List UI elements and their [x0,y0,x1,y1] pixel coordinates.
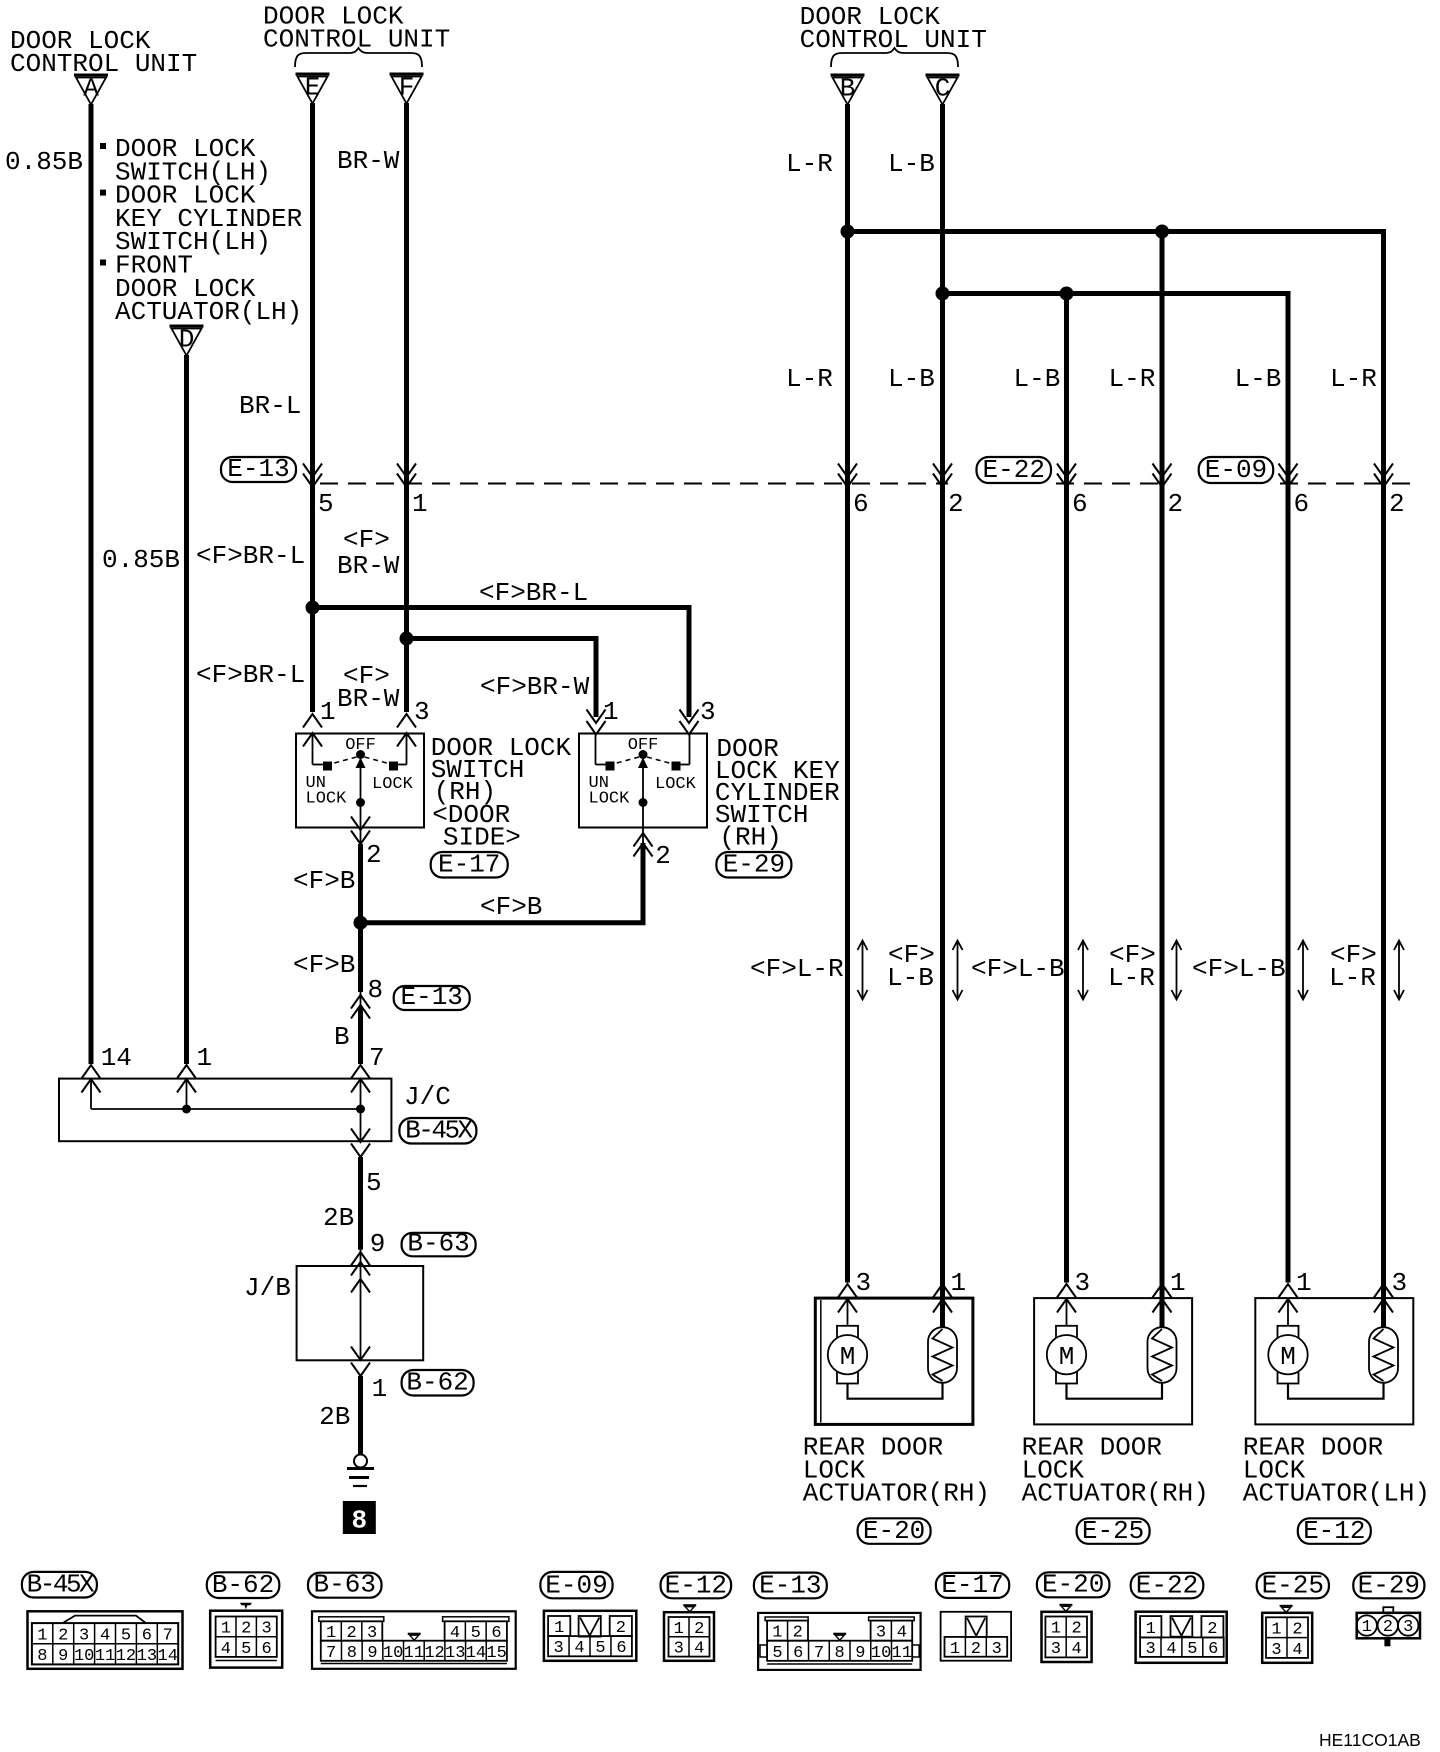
svg-text:1: 1 [1146,1620,1156,1639]
pin 14 arrow into J/C [82,1065,101,1093]
svg-text:5: 5 [595,1639,605,1658]
svg-text:E-17: E-17 [438,850,500,880]
bus wire from C to rear actuators (L-B) [940,291,1288,296]
svg-text:<F>BR-L: <F>BR-L [479,578,588,608]
svg-text:8: 8 [351,1506,367,1536]
rear door lock actuator name E-12 [1243,1432,1430,1508]
connector label B-45X [399,1116,476,1146]
connector pinout E-09 [544,1611,636,1661]
svg-text:B-45X: B-45X [405,1116,473,1146]
svg-text:6: 6 [1072,489,1088,519]
svg-text:E-12: E-12 [665,1570,727,1600]
svg-text:1: 1 [37,1626,47,1645]
svg-text:3: 3 [856,1268,872,1298]
updown arrow col4 [1172,941,1182,1000]
J/B entry arrow [351,1279,370,1293]
svg-text:A: A [83,74,99,104]
svg-text:13: 13 [445,1644,465,1663]
svg-text:ACTUATOR(LH): ACTUATOR(LH) [115,297,302,327]
wire drop to actuator RH2 pin3 (L-B) [1064,294,1069,1283]
svg-text:L-B: L-B [888,149,935,179]
svg-text:6: 6 [1294,489,1310,519]
connector crossing arrow at x=942.5 [933,464,952,488]
svg-text:BR-L: BR-L [239,391,301,421]
wire label <F> BR-W (second, two lines) [337,661,400,714]
svg-text:E-09: E-09 [1205,455,1267,485]
J/C internal bus [91,1079,361,1142]
connector B-63 crossing arrow, pin 9 [360,1250,362,1266]
svg-text:3: 3 [1392,1268,1408,1298]
svg-text:L-B: L-B [888,364,935,394]
svg-text:7: 7 [369,1043,385,1073]
wire drop to actuator RH2 pin1 (L-R) [1160,232,1165,1283]
svg-text:BR-W: BR-W [337,146,400,176]
svg-text:ACTUATOR(RH): ACTUATOR(RH) [1022,1479,1209,1509]
svg-text:1: 1 [1296,1268,1312,1298]
pin 1 arrow into J/C [177,1065,196,1093]
svg-text:3: 3 [1403,1618,1413,1637]
svg-text:10: 10 [74,1647,94,1666]
svg-text:B-63: B-63 [407,1228,469,1258]
svg-text:L-R: L-R [1329,963,1376,993]
pin 3 arrow into actuator E-25 [1057,1284,1076,1313]
J/C internal junction node (B) [356,1105,365,1114]
connector label E-09 (inline) [1199,455,1274,485]
svg-text:7: 7 [326,1644,336,1663]
updown arrow col2 [953,941,963,1000]
door lock switch (RH) name text [431,733,572,853]
svg-text:9: 9 [370,1229,386,1259]
updown arrow col3 [1078,941,1088,1000]
pin 2 arrow into key cylinder switch [634,833,653,857]
svg-text:3: 3 [414,697,430,727]
destination list: door lock switch LH / key cylinder switch LH / front door lock actuator LH [100,134,302,327]
actuator solenoid coil E-20 [928,1283,957,1383]
svg-text:1: 1 [1362,1618,1372,1637]
svg-text:<F>BR-W: <F>BR-W [480,672,590,702]
svg-text:F: F [399,73,415,103]
junction connector J/C box [59,1079,391,1142]
svg-text:L-R: L-R [1108,963,1155,993]
connector pinout E-22 [1136,1612,1227,1663]
wire D [184,355,189,1064]
connector label E-12 [1298,1516,1371,1546]
svg-text:2: 2 [1168,489,1184,519]
svg-text:E-25: E-25 [1082,1516,1144,1546]
svg-text:1: 1 [1271,1620,1281,1639]
actuator motor M E-12 [1268,1299,1307,1384]
connector label E-29 (strip) [1353,1570,1424,1600]
svg-text:6: 6 [142,1626,152,1645]
svg-text:3: 3 [674,1640,684,1659]
svg-text:E-13: E-13 [227,454,289,484]
connector crossing arrow at x=1288 [1279,464,1298,488]
connector pinout B-62 [210,1603,282,1668]
pin 2 arrow out of door lock switch [351,817,370,845]
junction node on <F>B wire [354,916,368,930]
svg-text:4: 4 [1166,1640,1176,1659]
connector crossing arrow at x=1162 [1153,464,1172,488]
svg-text:D: D [179,325,195,355]
svg-text:8: 8 [835,1644,845,1663]
junction node on wire C [936,287,950,301]
brace over B and C [831,48,958,67]
svg-text:8: 8 [368,975,384,1005]
svg-text:LOCK: LOCK [306,790,348,809]
connector label E-22 (inline) [977,455,1052,485]
actuator internal wire E-20 [848,1383,943,1399]
svg-text:3: 3 [1075,1268,1091,1298]
svg-text:<F>L-B: <F>L-B [1192,954,1286,984]
connector label E-17 (strip) [936,1570,1009,1600]
svg-text:L-R: L-R [1109,364,1156,394]
svg-text:E-29: E-29 [1358,1570,1420,1600]
branch wire <F>BR-L to key cylinder switch pin3 [313,608,690,718]
svg-text:8: 8 [37,1647,47,1666]
svg-text:J/B: J/B [244,1273,291,1303]
connector triangle D [170,325,204,356]
connector pinout E-20 [1042,1605,1092,1662]
svg-text:2: 2 [1383,1618,1393,1637]
svg-text:0.85B: 0.85B [102,545,180,575]
rear door lock actuator box E-12 [1255,1298,1413,1424]
connector label E-20 [858,1516,931,1546]
svg-text:<F>L-B: <F>L-B [971,954,1065,984]
svg-text:L-B: L-B [1235,364,1282,394]
branch wire <F>B to key cylinder switch pin2 [361,843,644,923]
svg-text:2: 2 [1389,489,1405,519]
connector triangle B [831,74,865,105]
svg-text:M: M [1059,1342,1075,1372]
svg-text:<F>BR-L: <F>BR-L [196,541,305,571]
svg-text:10: 10 [871,1644,891,1663]
svg-text:M: M [840,1342,856,1372]
svg-text:5: 5 [241,1640,251,1659]
connector crossing arrow at x=312.5 [303,464,322,488]
wire label <F> L-R (col6) [1329,940,1377,993]
svg-text:3: 3 [79,1626,89,1645]
harness boundary dashed line [320,483,1420,485]
connector pinout B-45X [28,1611,183,1669]
svg-text:1: 1 [320,697,336,727]
pin 1 arrow into actuator E-12 [1279,1284,1298,1313]
connector pinout E-13 [758,1613,921,1670]
wire label <F> L-R (col4) [1108,940,1156,993]
ground reference number 8 [343,1501,376,1536]
pin 5 arrow out of J/C [351,1129,370,1158]
ground symbol [347,1455,374,1487]
connector label E-09 (strip) [540,1570,612,1600]
svg-text:3: 3 [1051,1640,1061,1659]
connector label B-63 (strip) [308,1570,382,1600]
pin 3 arrow into door lock switch [397,714,416,747]
svg-text:11: 11 [892,1644,912,1663]
svg-text:2: 2 [948,489,964,519]
svg-text:L-B: L-B [1014,364,1061,394]
svg-text:<F>BR-L: <F>BR-L [196,660,305,690]
svg-text:12: 12 [116,1647,136,1666]
connector pinout E-29 [1357,1607,1421,1646]
junction node at x=1066.5 [1060,287,1074,301]
branch wire <F>BR-W to key cylinder switch pin1 [407,639,597,718]
junction block J/B box [297,1266,424,1360]
svg-text:6: 6 [793,1644,803,1663]
connector label E-17 [431,850,508,880]
junction node on wire B [841,225,855,239]
svg-text:3: 3 [992,1640,1002,1659]
svg-text:L-R: L-R [786,149,833,179]
svg-text:2: 2 [1071,1620,1081,1639]
actuator solenoid coil E-12 [1369,1283,1398,1383]
connector pinout E-12 [664,1605,714,1661]
svg-text:3: 3 [1271,1641,1281,1660]
svg-text:B: B [334,1022,350,1052]
door lock control unit (B/C) label [800,2,987,55]
pin 1 arrow into actuator E-20 [933,1284,952,1313]
rear door lock actuator box E-20 [815,1298,973,1424]
connector label E-25 (strip) [1257,1570,1329,1600]
connector label E-20 (strip) [1037,1569,1110,1599]
actuator solenoid coil E-25 [1148,1283,1177,1383]
svg-text:3: 3 [1145,1640,1155,1659]
svg-text:B-62: B-62 [212,1570,274,1600]
svg-text:HE11CO1AB: HE11CO1AB [1319,1730,1421,1750]
junction node at x=1162 [1155,225,1169,239]
svg-text:C: C [935,74,951,104]
connector label B-45X (strip) [22,1570,97,1600]
svg-text:6: 6 [616,1639,626,1658]
svg-text:L-R: L-R [1330,364,1377,394]
J/B internal wire [360,1266,362,1360]
pin 1 arrow into door lock switch [303,714,322,747]
connector label E-13 (left) [221,454,296,484]
connector label E-13 (centre) [394,982,470,1012]
svg-text:(RH): (RH) [719,823,781,853]
svg-text:10: 10 [383,1644,403,1663]
svg-text:E-13: E-13 [759,1570,821,1600]
connector E-13 crossing arrow, pin 8 [360,992,362,1008]
svg-text:1: 1 [1051,1620,1061,1639]
junction node on wire E [306,601,320,615]
wire B (black) to J/C [358,1008,363,1064]
wire B (L-R) [845,104,850,1283]
svg-text:<F>B: <F>B [480,892,542,922]
svg-text:B-62: B-62 [406,1368,468,1398]
svg-text:4: 4 [221,1640,231,1659]
svg-text:5: 5 [121,1626,131,1645]
door lock switch (RH) box [296,734,424,828]
svg-text:2: 2 [58,1626,68,1645]
svg-text:4: 4 [574,1639,584,1658]
pin 1 arrow into actuator E-25 [1153,1284,1172,1313]
connector label B-63 (inline) [402,1228,476,1258]
wire C (L-B) [940,104,945,1283]
pin 1 arrow out of J/B [351,1363,370,1377]
svg-text:3: 3 [553,1639,563,1658]
connector triangle E [296,73,330,104]
connector pinout E-25 [1262,1606,1312,1663]
svg-text:12: 12 [424,1644,444,1663]
wire drop corner to actuator LH pin3 (L-R) [1381,229,1386,1283]
svg-text:14: 14 [158,1647,178,1666]
connector crossing arrow at x=847.5 [838,464,857,488]
svg-text:L-B: L-B [887,963,934,993]
updown arrow col5 [1298,941,1308,1000]
svg-text:9: 9 [855,1644,865,1663]
junction node on wire F [400,632,414,646]
wire label <F> L-B (col2) [887,940,935,993]
actuator motor M E-20 [828,1299,867,1384]
svg-text:BR-W: BR-W [337,551,400,581]
svg-text:11: 11 [95,1647,115,1666]
svg-text:7: 7 [163,1626,173,1645]
svg-text:4: 4 [100,1626,110,1645]
svg-text:5: 5 [318,489,334,519]
connector pinout E-17 [941,1612,1012,1661]
updown arrow col1 [858,941,868,1000]
svg-text:3: 3 [261,1620,271,1639]
svg-text:E-20: E-20 [1042,1569,1104,1599]
svg-text:E-29: E-29 [723,850,785,880]
svg-text:4: 4 [1292,1641,1302,1660]
pin 3 arrow into actuator E-12 [1374,1284,1393,1313]
svg-text:<F>B: <F>B [293,950,355,980]
svg-text:1: 1 [412,489,428,519]
svg-text:4: 4 [694,1640,704,1659]
svg-text:1: 1 [197,1043,213,1073]
actuator internal wire E-25 [1067,1383,1163,1399]
wire 2B to ground [358,1376,363,1454]
pin 1 arrow into key cylinder switch [587,710,606,735]
svg-text:E-22: E-22 [983,455,1045,485]
svg-text:6: 6 [853,489,869,519]
svg-text:BR-W: BR-W [337,684,400,714]
connector triangle C [926,74,960,105]
connector label E-13 (strip) [754,1570,827,1600]
svg-text:LOCK: LOCK [589,790,631,809]
svg-text:E-22: E-22 [1136,1570,1198,1600]
svg-text:2: 2 [1292,1620,1302,1639]
wire F (BR-W) [404,103,409,712]
svg-text:M: M [1280,1342,1296,1372]
svg-text:1: 1 [603,697,619,727]
svg-text:13: 13 [137,1647,157,1666]
connector crossing arrow at x=1066.5 [1057,464,1076,488]
svg-text:5: 5 [366,1168,382,1198]
svg-text:E-17: E-17 [941,1570,1003,1600]
svg-text:5: 5 [1187,1640,1197,1659]
svg-text:5: 5 [772,1644,782,1663]
svg-text:ACTUATOR(RH): ACTUATOR(RH) [803,1479,990,1509]
svg-text:E-20: E-20 [863,1516,925,1546]
svg-text:E-12: E-12 [1303,1516,1365,1546]
wire 2B from J/C [358,1157,363,1250]
svg-text:B-45X: B-45X [27,1570,95,1600]
door lock control unit (E/F) label [263,2,450,55]
wire E (BR-L) [310,103,315,712]
rear door lock actuator name E-20 [803,1432,990,1508]
svg-text:2B: 2B [323,1203,354,1233]
svg-text:ACTUATOR(LH): ACTUATOR(LH) [1243,1479,1430,1509]
key cylinder switch (RH) box [579,734,707,828]
svg-text:E: E [305,73,321,103]
connector label E-22 (strip) [1131,1570,1204,1600]
svg-text:<F>L-R: <F>L-R [750,954,844,984]
svg-text:2: 2 [366,840,382,870]
svg-text:2: 2 [694,1620,704,1639]
connector crossing arrow at x=1383.5 [1374,464,1393,488]
actuator internal wire E-12 [1288,1383,1384,1399]
svg-text:8: 8 [347,1644,357,1663]
svg-text:2: 2 [655,841,671,871]
rear door lock actuator box E-25 [1034,1298,1192,1424]
svg-text:9: 9 [367,1644,377,1663]
J/C internal junction node (D) [182,1105,191,1114]
rear door lock actuator name E-25 [1022,1432,1209,1508]
updown arrow col6 [1394,941,1404,1000]
svg-text:2: 2 [241,1620,251,1639]
svg-text:B-63: B-63 [314,1570,376,1600]
svg-text:E-09: E-09 [545,1570,607,1600]
svg-text:LOCK: LOCK [372,775,414,794]
wire drop to actuator LH pin1 (L-B) [1286,291,1291,1283]
svg-text:6: 6 [1208,1640,1218,1659]
svg-text:1: 1 [950,1640,960,1659]
connector label E-12 (strip) [661,1570,732,1600]
svg-text:E-25: E-25 [1262,1570,1324,1600]
connector label B-62 (strip) [207,1570,279,1600]
connector label B-62 (inline) [402,1368,474,1398]
svg-text:J/C: J/C [404,1082,451,1112]
svg-text:B: B [840,74,856,104]
svg-text:<F>B: <F>B [293,866,355,896]
svg-text:1: 1 [1170,1268,1186,1298]
svg-text:14: 14 [466,1644,486,1663]
svg-text:11: 11 [404,1644,424,1663]
svg-text:9: 9 [58,1647,68,1666]
connector pinout B-63 [312,1611,516,1669]
svg-text:1: 1 [674,1620,684,1639]
svg-text:E-13: E-13 [400,982,462,1012]
svg-text:1: 1 [951,1268,967,1298]
door lock key cylinder switch (RH) name text [715,734,840,853]
svg-text:3: 3 [700,697,716,727]
svg-text:1: 1 [221,1620,231,1639]
connector triangle F [390,73,424,104]
pin 7 arrow into J/C [351,1065,370,1093]
svg-text:1: 1 [372,1374,388,1404]
wire A (0.85B) [89,104,94,1064]
connector triangle A [74,74,108,105]
svg-text:6: 6 [261,1640,271,1659]
pin 3 arrow into actuator E-20 [838,1284,857,1313]
J/B exit arrow [351,1347,370,1361]
svg-text:15: 15 [486,1644,506,1663]
connector label E-25 [1077,1516,1150,1546]
svg-text:LOCK: LOCK [655,775,697,794]
svg-text:L-R: L-R [786,364,833,394]
svg-text:7: 7 [814,1644,824,1663]
brace over E and F [295,48,422,67]
actuator motor M E-25 [1047,1299,1086,1384]
connector label E-29 [716,850,791,880]
wire label <F> BR-W (two lines) [337,525,400,581]
svg-text:2: 2 [971,1640,981,1659]
door lock control unit (LH) label [10,26,197,79]
svg-text:2: 2 [1207,1620,1217,1639]
svg-text:14: 14 [101,1043,132,1073]
connector crossing arrow at x=406.5 [397,464,416,488]
